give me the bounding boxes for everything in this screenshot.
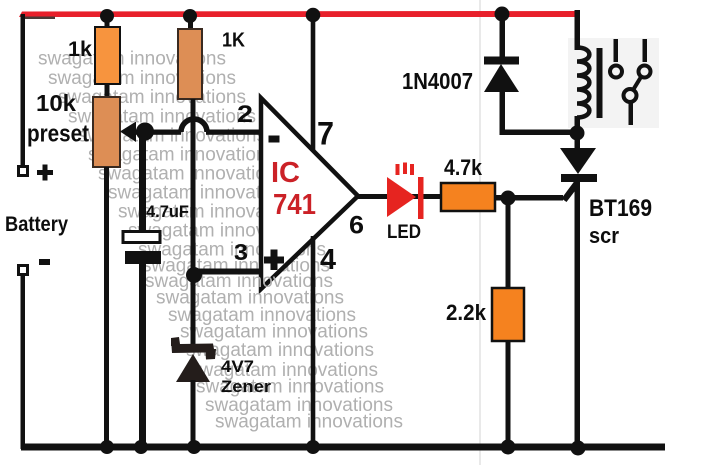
battery + wire: [21, 14, 26, 169]
wire pin2 (wiper to op-amp): [133, 130, 181, 135]
wire 1k to preset: [105, 84, 110, 98]
SCR cathode wire: [575, 180, 581, 448]
junction dot bottom x315: [306, 440, 320, 454]
junction dot relay/scr: [570, 126, 585, 141]
output wire pin6 to R3: [357, 194, 441, 199]
junction dot bottom x508: [501, 440, 516, 455]
wire 1K top: [188, 14, 193, 30]
- label: [39, 259, 50, 265]
junction dot bottom x577: [571, 441, 586, 456]
svg-text:LED: LED: [387, 222, 421, 243]
LED light marks: [396, 164, 400, 175]
relay common contact: [624, 89, 637, 102]
resistor R2 1K: [178, 29, 202, 99]
wire R4 bottom: [506, 341, 511, 448]
svg-text:swagatam innovations: swagatam innovations: [215, 412, 403, 433]
svg-text:10k: 10k: [36, 90, 76, 116]
svg-text:741: 741: [273, 189, 316, 221]
resistor R4 2.2k: [492, 288, 524, 341]
faint seam line: [479, 0, 481, 465]
svg-text:6: 6: [349, 212, 364, 240]
svg-text:preset: preset: [27, 121, 89, 148]
LED D3: [387, 177, 416, 217]
relay coil top wire: [575, 10, 581, 50]
junction dot pin3 node: [186, 267, 202, 283]
svg-text:BT169: BT169: [589, 195, 652, 222]
resistor R1 1k: [95, 27, 120, 84]
wire 1k top: [105, 14, 110, 29]
junction dot bottom x141: [134, 440, 148, 454]
svg-text:1k: 1k: [68, 38, 92, 61]
svg-text:2: 2: [237, 101, 253, 128]
svg-text:4.7uF: 4.7uF: [146, 203, 189, 221]
negative rail (bottom): [21, 444, 665, 451]
svg-text:swagatam innovations: swagatam innovations: [58, 87, 246, 108]
relay core bar: [597, 48, 603, 118]
svg-text:2.2k: 2.2k: [446, 300, 487, 325]
zener D2 4V7: [171, 337, 216, 360]
svg-text:1K: 1K: [222, 30, 245, 52]
battery - wire: [21, 275, 26, 449]
battery - terminal: [19, 266, 28, 275]
minus input mark: [269, 136, 280, 143]
relay coil bottom wire: [575, 116, 581, 134]
watermark swagatam innovations (lower rows): [145, 271, 403, 433]
op-amp U1 741 body: [261, 98, 358, 289]
diode D1 1N4007: [495, 7, 510, 22]
wire hop over vertical: [181, 119, 207, 132]
wire zener bottom: [191, 380, 196, 448]
capacitor C1 wire bottom: [139, 264, 146, 448]
junction dot rail x107: [100, 9, 114, 23]
svg-text:7: 7: [317, 116, 334, 152]
relay contact 1: [614, 39, 619, 62]
resistor R4 2.2k wire top: [506, 198, 511, 290]
wire D1 to relay node: [500, 130, 578, 136]
pin4 wire: [311, 236, 316, 448]
junction dot bottom x194: [187, 440, 201, 454]
wire 1K to zener node: [191, 99, 196, 345]
svg-text:Battery: Battery: [5, 213, 68, 236]
plus input mark: [264, 257, 284, 264]
relay box: [568, 38, 659, 128]
svg-text:swagatam innovations: swagatam innovations: [48, 68, 236, 89]
junction dot rail x315: [306, 8, 321, 23]
relay coil: [577, 48, 589, 118]
wire R3 to gate: [495, 195, 563, 201]
junction dot bottom x107: [100, 440, 114, 454]
junction dot gate/2.2k: [501, 191, 516, 206]
SCR Q1 BT169: [560, 148, 596, 174]
SCR Q1 BT169 anode wire: [575, 133, 581, 149]
junction dot rail x190: [183, 9, 197, 23]
resistor R3 4.7k: [441, 183, 495, 211]
svg-text:IC: IC: [271, 157, 300, 189]
capacitor C1 plates: [123, 232, 160, 243]
capacitor C1 4.7uF wire top: [139, 133, 146, 231]
svg-text:4.7k: 4.7k: [444, 155, 483, 180]
svg-text:Zener: Zener: [221, 377, 271, 396]
battery + terminal: [19, 167, 28, 176]
watermark swagatam innovations (upper rows): [38, 49, 330, 277]
pin7 wire: [311, 14, 316, 151]
wire preset bottom: [104, 167, 109, 448]
preset wiper arrow: [120, 122, 136, 143]
svg-text:4V7: 4V7: [221, 357, 254, 376]
positive rail (red): [19, 11, 578, 17]
relay contact 2: [643, 39, 648, 62]
svg-text:4: 4: [320, 244, 336, 276]
junction dot wiper/cap: [136, 123, 154, 141]
preset 10k: [93, 97, 120, 167]
+ label: [37, 170, 53, 175]
wire pin3: [194, 269, 260, 275]
svg-text:3: 3: [234, 239, 248, 265]
svg-text:1N4007: 1N4007: [402, 68, 473, 94]
svg-text:scr: scr: [589, 223, 619, 248]
